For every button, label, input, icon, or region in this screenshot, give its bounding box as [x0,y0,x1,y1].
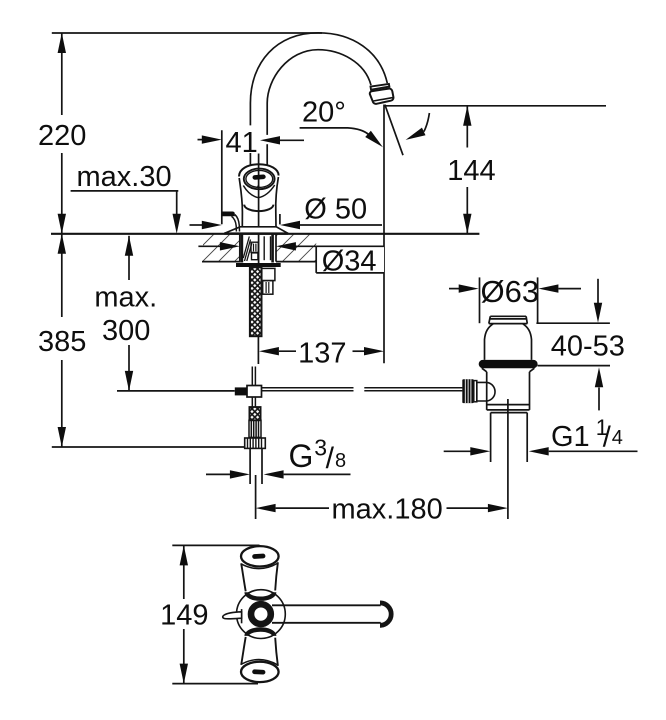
svg-text:Ø63: Ø63 [481,274,540,309]
waste flange gasket [479,360,538,368]
svg-text:220: 220 [38,120,86,152]
waste tailpipe [490,413,492,462]
svg-text:max.180: max.180 [332,494,443,526]
pop-up rod upper stub [251,367,253,386]
dimension Ø34 arrows [198,245,221,247]
lower hose segment (braided) [249,407,260,420]
svg-text:144: 144 [447,155,495,187]
counter top line [51,233,479,235]
dimension Ø63 [449,288,459,290]
dimension G1 1/4 [444,450,471,452]
svg-text:Ø34: Ø34 [322,245,377,277]
spout tube seen from above [272,604,381,606]
mounting washer below counter [236,263,281,267]
spout end cap [380,603,391,625]
aerator (spout tip) [371,84,390,90]
centerline faucet supply [255,475,257,519]
supply pipe below nut [249,448,251,484]
pop-up lever [241,609,243,623]
handle (bottom, mirrored) [241,630,279,683]
svg-text:4: 4 [612,427,623,449]
pop-up tee joint [247,386,262,398]
svg-text:Ø 50: Ø 50 [304,194,367,226]
dimension 149 [172,544,259,546]
20° second arc arrow [424,113,430,132]
svg-text:41: 41 [226,127,258,159]
spout inner curve [267,50,371,135]
dimension max.180 [256,504,276,512]
handle body left side [239,178,242,227]
dimension 144 [466,106,468,148]
Ø34 label box [316,246,384,273]
385 bottom reference line [52,446,245,448]
knob indicator bar [252,174,265,180]
pop-up rod guide blocks [262,268,275,280]
ribbed adapter [249,420,261,437]
dimension G3/8 [206,473,232,475]
vertical reference line from spout tip [383,105,385,364]
max.30 leader line [71,190,179,192]
144 top reference line [384,105,606,107]
mounting shank through counter [239,234,241,262]
dimension 40-53 [536,322,610,324]
svg-text:/: / [603,422,612,454]
svg-text:149: 149 [160,599,208,631]
svg-text:40-53: 40-53 [551,330,625,362]
handle knob dome silhouette [239,164,279,176]
centerline drain tailpipe [507,399,509,519]
svg-text:G: G [289,438,314,474]
svg-text:385: 385 [38,326,86,358]
counter hatch cross-section [203,234,316,262]
svg-text:max.30: max.30 [77,161,172,193]
label G1 1/4 [551,415,623,454]
faucet centerline [258,154,260,268]
dimension 220 vertical line [61,33,63,115]
knob barrel [477,382,495,401]
pop-up rod cross-section in shank [251,242,258,252]
spout water direction line (20 deg) [385,105,403,156]
counter bottom edge lines [202,261,241,263]
top reference line (spout height) [52,32,322,34]
dimension max.300 vertical line [128,236,130,280]
svg-text:/: / [326,442,335,475]
base escutcheon [224,227,288,234]
spout outer curve [250,33,387,126]
chamfer below flange [482,368,487,372]
pop-up rod lower stub [251,397,253,407]
knob skirt V edge [243,185,274,198]
svg-text:G1: G1 [551,421,590,453]
dimension 41 [198,139,204,141]
shank thread hatching [243,237,252,262]
svg-text:max.: max. [94,281,157,313]
svg-text:8: 8 [335,450,346,472]
svg-text:20°: 20° [302,97,346,129]
dimension Ø50 [279,214,281,224]
svg-text:137: 137 [298,338,346,370]
compression nut G3/8 [245,438,266,448]
handle body right side [276,177,279,227]
svg-text:300: 300 [102,315,150,347]
waste push cap [490,315,526,317]
knob top face outer ellipse [244,169,275,190]
dimension 385 vertical line [61,234,63,317]
pop-up rod reference line [117,390,235,392]
clamp block left of tee [235,387,247,395]
horizontal pop-up rod [262,387,354,389]
body circle [237,590,286,639]
pop-up hook at base [222,212,235,217]
waste neck [485,324,494,360]
20° leader with arrow [300,128,369,134]
waste body [486,372,488,410]
pop-up rod knob (knurled) [462,379,474,403]
supply pipe in shank [263,236,265,260]
knob top face inner ellipse [246,170,273,187]
dimension 137 [257,336,259,364]
label G 3/8 [289,435,347,476]
handle (top) [241,546,279,599]
flexible supply hose (braided) [250,267,262,336]
knob skirt bottom arc [244,205,273,212]
spout riser ring [251,604,271,624]
